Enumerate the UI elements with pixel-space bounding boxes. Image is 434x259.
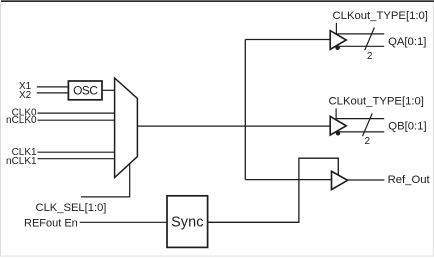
svg-text:Sync: Sync [171, 215, 203, 231]
svg-text:OSC: OSC [73, 84, 98, 98]
wire X2 to OSC [37, 92, 68, 94]
wire nCLK1 to mux [38, 158, 115, 160]
wire CLK1 to mux [38, 151, 115, 153]
QA bus bottom line [335, 45, 384, 47]
wire Ref buffer output [348, 179, 385, 181]
QB bus slash [363, 114, 373, 137]
wire X1 to OSC [37, 86, 68, 88]
wire REFout En to Sync [80, 221, 167, 223]
frame left border [0, 2, 1, 256]
svg-text:nCLK1: nCLK1 [6, 156, 37, 167]
QA bus top line [336, 33, 384, 35]
QB junction dot [336, 131, 341, 136]
svg-text:CLK_SEL[1:0]: CLK_SEL[1:0] [36, 202, 107, 214]
svg-text:REFout En: REFout En [24, 218, 78, 230]
oscillator OSC box [68, 81, 102, 100]
svg-text:QA[0:1]: QA[0:1] [388, 36, 426, 48]
QB bus bottom line [335, 131, 384, 133]
svg-text:CLKout_TYPE[1:0]: CLKout_TYPE[1:0] [333, 10, 428, 22]
wire CLK_SEL horizontal [81, 164, 130, 197]
buffer Ref_Out [332, 171, 348, 189]
wire to Ref buffer [245, 179, 331, 181]
wire Sync output to Ref buffer enable [208, 158, 339, 222]
buffer QA [330, 31, 346, 50]
svg-text:nCLK0: nCLK0 [6, 115, 37, 126]
svg-text:2: 2 [365, 136, 371, 147]
sync box [167, 196, 208, 248]
svg-text:QB[0:1]: QB[0:1] [388, 120, 426, 132]
buffer QB [330, 116, 346, 135]
control line into QA buffer [335, 23, 337, 35]
frame right border [433, 2, 434, 256]
svg-text:CLKout_TYPE[1:0]: CLKout_TYPE[1:0] [329, 96, 424, 108]
control line into QB buffer [335, 109, 337, 121]
wire mux output [137, 125, 330, 127]
wire branch vertical [244, 40, 246, 180]
wire OSC to mux [102, 89, 114, 91]
QA junction dot [335, 46, 340, 51]
svg-text:X2: X2 [19, 90, 32, 101]
wire CLK0 to mux [38, 112, 115, 114]
svg-text:Ref_Out: Ref_Out [388, 174, 431, 186]
svg-text:2: 2 [367, 51, 373, 62]
QA bus slash [365, 28, 375, 51]
wire nCLK0 to mux [38, 119, 115, 121]
QB bus top line [336, 118, 384, 120]
frame bottom border [0, 256, 434, 257]
wire to QA buffer [245, 39, 330, 41]
multiplexer MUX [115, 78, 138, 178]
frame top border [1, 0, 434, 2]
